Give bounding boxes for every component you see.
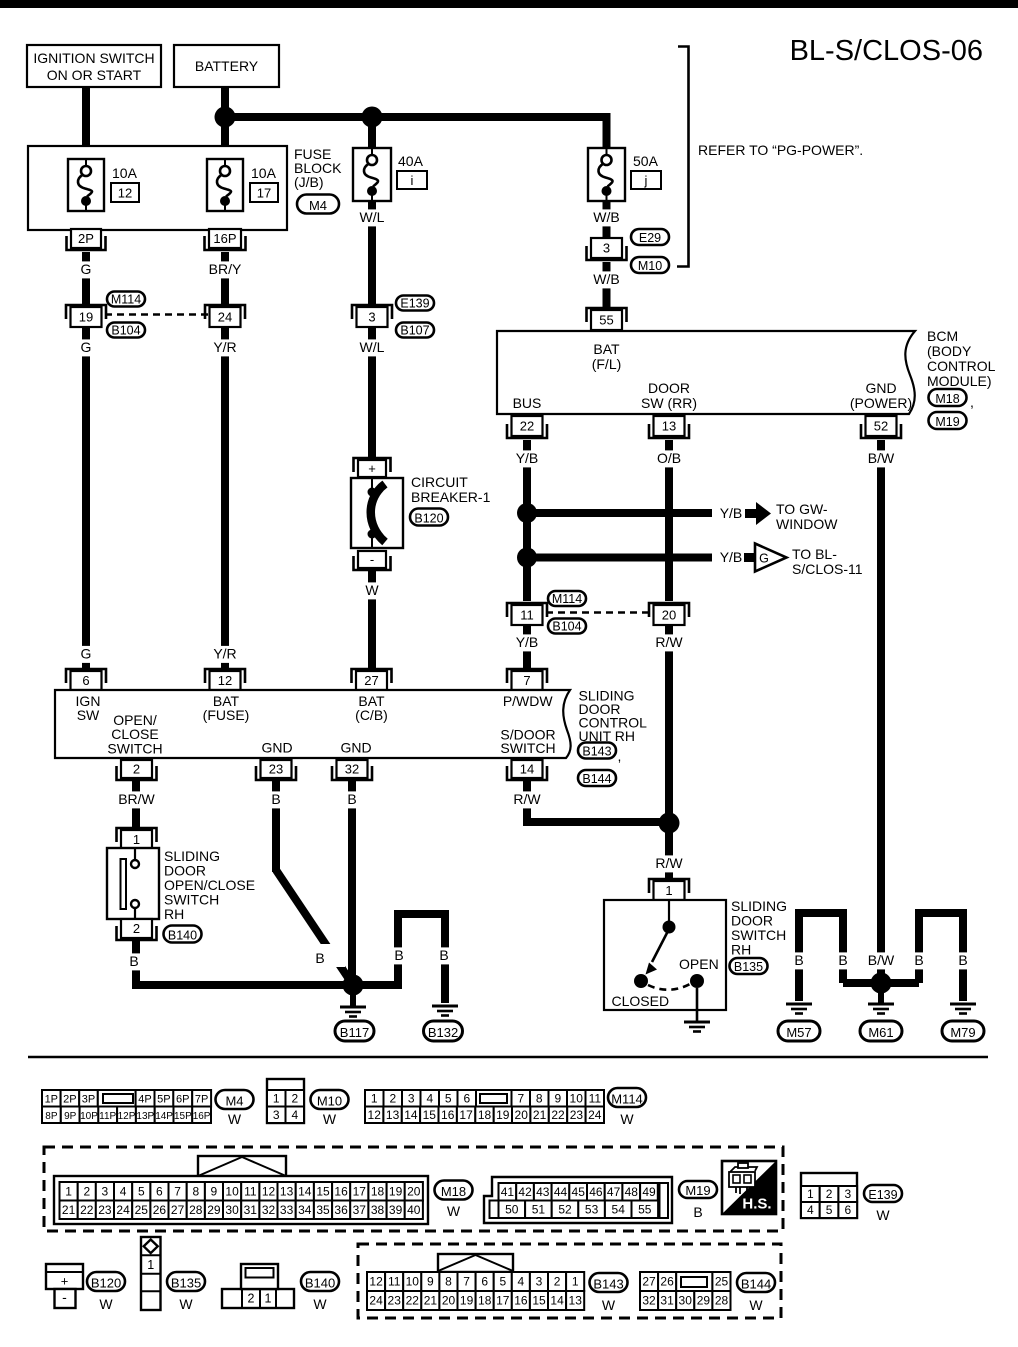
svg-text:B144: B144 bbox=[582, 772, 611, 786]
connector B120 oval bbox=[410, 509, 448, 526]
BCM pin name BUS bbox=[513, 395, 542, 411]
svg-text:2: 2 bbox=[389, 1091, 396, 1105]
svg-text:W: W bbox=[228, 1111, 242, 1127]
svg-text:5P: 5P bbox=[157, 1093, 170, 1105]
svg-text:SWITCH: SWITCH bbox=[500, 740, 555, 756]
svg-text:27: 27 bbox=[171, 1203, 185, 1217]
svg-text:W: W bbox=[447, 1203, 461, 1219]
BCM label bbox=[927, 328, 996, 389]
wire 19 to IGN SW pin 6 bbox=[82, 327, 90, 671]
svg-text:2: 2 bbox=[248, 1292, 255, 1306]
svg-text:BR/Y: BR/Y bbox=[209, 261, 242, 277]
wire label Y/B below 11 bbox=[513, 634, 541, 651]
svg-text:18: 18 bbox=[478, 1108, 492, 1122]
wire label G above 6 bbox=[78, 646, 94, 663]
svg-text:1: 1 bbox=[807, 1187, 814, 1201]
svg-text:6: 6 bbox=[481, 1275, 488, 1289]
svg-text:W: W bbox=[179, 1296, 193, 1312]
svg-text:(BODY: (BODY bbox=[927, 343, 972, 359]
svg-text:26: 26 bbox=[660, 1275, 674, 1289]
wire label BR/Y bbox=[206, 261, 244, 278]
svg-text:,: , bbox=[618, 748, 622, 764]
control unit pin name P/WDW bbox=[503, 693, 554, 709]
circuit breaker minus connector bbox=[354, 551, 391, 570]
svg-text:B117: B117 bbox=[340, 1025, 369, 1040]
svg-text:9P: 9P bbox=[64, 1111, 77, 1122]
svg-text:46: 46 bbox=[589, 1185, 603, 1199]
ground M79 bbox=[950, 1004, 976, 1014]
wire 16P to 24 bbox=[221, 252, 229, 305]
control unit pin name GND 32 bbox=[340, 740, 371, 756]
svg-text:24: 24 bbox=[116, 1203, 130, 1217]
wire label R/W above 1 bbox=[653, 855, 685, 872]
svg-text:IGNITION SWITCH: IGNITION SWITCH bbox=[33, 50, 154, 66]
door switch OPEN contact bbox=[679, 956, 719, 988]
connector E139 face oval bbox=[864, 1185, 902, 1223]
fuse 10A 12 bbox=[68, 159, 104, 211]
svg-text:B: B bbox=[914, 952, 923, 968]
ground door switch bbox=[684, 1022, 710, 1032]
svg-text:19: 19 bbox=[460, 1294, 474, 1308]
svg-text:50: 50 bbox=[505, 1202, 519, 1216]
svg-text:2: 2 bbox=[133, 921, 140, 936]
svg-text:10A: 10A bbox=[251, 165, 277, 181]
svg-text:M18: M18 bbox=[935, 392, 959, 406]
branch wire to GW-WINDOW bbox=[527, 509, 712, 517]
svg-text:5: 5 bbox=[826, 1203, 833, 1217]
sliding door open/close switch body bbox=[107, 848, 159, 919]
svg-text:12: 12 bbox=[369, 1275, 383, 1289]
wire 23 down bbox=[272, 781, 280, 872]
svg-text:53: 53 bbox=[585, 1202, 599, 1216]
svg-text:32: 32 bbox=[262, 1203, 276, 1217]
svg-text:ON OR START: ON OR START bbox=[47, 67, 142, 83]
splice dashed link 11-20 bbox=[546, 611, 651, 614]
svg-text:23: 23 bbox=[570, 1108, 584, 1122]
svg-text:M10: M10 bbox=[317, 1093, 342, 1108]
svg-text:9: 9 bbox=[427, 1275, 434, 1289]
svg-text:54: 54 bbox=[612, 1202, 626, 1216]
junction R/W bbox=[659, 813, 680, 834]
svg-text:40A: 40A bbox=[398, 153, 424, 169]
wire GND 52 down bbox=[877, 440, 885, 983]
svg-text:7: 7 bbox=[463, 1275, 470, 1289]
connector B143 oval right bbox=[578, 743, 621, 765]
door switch contact arm bbox=[646, 900, 676, 975]
H.S. hand symbol bbox=[722, 1161, 776, 1214]
svg-text:7P: 7P bbox=[195, 1093, 208, 1105]
connector 14 bbox=[507, 760, 547, 780]
svg-text:B: B bbox=[439, 947, 448, 963]
svg-text:13: 13 bbox=[386, 1108, 400, 1122]
svg-text:11: 11 bbox=[520, 608, 534, 623]
svg-text:CIRCUIT: CIRCUIT bbox=[411, 474, 468, 490]
svg-text:12: 12 bbox=[262, 1184, 276, 1198]
wire label W/L upper bbox=[357, 209, 387, 226]
ground wires M57 bbox=[799, 913, 843, 1001]
svg-text:22: 22 bbox=[520, 419, 534, 434]
svg-text:W/B: W/B bbox=[593, 209, 619, 225]
svg-text:17: 17 bbox=[257, 186, 271, 201]
svg-text:2P: 2P bbox=[63, 1093, 76, 1105]
svg-text:32: 32 bbox=[642, 1294, 656, 1308]
svg-text:TO BL-: TO BL- bbox=[792, 546, 837, 562]
svg-text:(J/B): (J/B) bbox=[294, 174, 324, 190]
connector B135 oval bbox=[730, 958, 768, 974]
connector face M19 bbox=[484, 1177, 672, 1223]
connector M4 face oval bbox=[216, 1090, 254, 1127]
svg-text:H.S.: H.S. bbox=[742, 1196, 771, 1213]
ground M57 bbox=[786, 1004, 812, 1014]
svg-text:36: 36 bbox=[334, 1203, 348, 1217]
label TO GW-WINDOW bbox=[776, 501, 838, 532]
svg-text:BCM: BCM bbox=[927, 328, 958, 344]
svg-text:52: 52 bbox=[874, 419, 888, 434]
svg-text:W/B: W/B bbox=[593, 271, 619, 287]
wire label BR/W bbox=[116, 791, 158, 808]
svg-text:18: 18 bbox=[371, 1184, 385, 1198]
svg-text:BREAKER-1: BREAKER-1 bbox=[411, 489, 491, 505]
svg-text:29: 29 bbox=[207, 1203, 221, 1217]
fuse 50A j bbox=[588, 148, 625, 201]
svg-text:24: 24 bbox=[369, 1294, 383, 1308]
control unit pin name IGN SW bbox=[76, 693, 101, 723]
svg-text:Y/B: Y/B bbox=[516, 634, 539, 650]
connector face B143 bbox=[367, 1272, 584, 1310]
svg-text:,: , bbox=[970, 394, 974, 410]
refer-to text bbox=[698, 142, 863, 158]
svg-text:B140: B140 bbox=[305, 1275, 335, 1290]
wire label B left of bridge bbox=[392, 947, 406, 964]
svg-text:30: 30 bbox=[225, 1203, 239, 1217]
svg-text:Y/B: Y/B bbox=[516, 450, 539, 466]
connector 55 bbox=[587, 308, 627, 330]
svg-text:20: 20 bbox=[442, 1294, 456, 1308]
svg-text:17: 17 bbox=[496, 1294, 510, 1308]
svg-text:E139: E139 bbox=[868, 1188, 897, 1202]
svg-text:B143: B143 bbox=[593, 1276, 623, 1291]
svg-text:11P: 11P bbox=[99, 1111, 116, 1122]
wire 11 to P/WDW pin 7 bbox=[523, 625, 531, 671]
svg-text:55: 55 bbox=[638, 1202, 652, 1216]
connector B144 face oval bbox=[737, 1273, 775, 1313]
wire label B below 32 bbox=[345, 791, 359, 808]
door switch CLOSED contact bbox=[612, 974, 670, 1009]
wire ignition to fuse block bbox=[82, 87, 90, 147]
svg-text:5: 5 bbox=[138, 1184, 145, 1198]
svg-text:G: G bbox=[81, 646, 92, 662]
svg-text:W: W bbox=[313, 1296, 327, 1312]
arrow to GW-WINDOW bbox=[745, 502, 771, 525]
svg-text:SW (RR): SW (RR) bbox=[641, 395, 697, 411]
svg-text:B: B bbox=[794, 952, 803, 968]
connector 3 E139 bbox=[352, 305, 392, 327]
svg-text:GND: GND bbox=[340, 740, 371, 756]
svg-text:W: W bbox=[620, 1111, 634, 1127]
svg-text:25: 25 bbox=[715, 1275, 729, 1289]
wire label W/B lower bbox=[591, 271, 622, 288]
svg-text:4P: 4P bbox=[138, 1093, 151, 1105]
control unit pin name S/DOOR SWITCH bbox=[500, 727, 555, 757]
svg-text:1: 1 bbox=[133, 832, 140, 847]
svg-text:1: 1 bbox=[147, 1258, 154, 1272]
wire label B below 23 bbox=[269, 791, 283, 808]
fuse block label bbox=[294, 146, 342, 190]
wire label G below 19 bbox=[78, 339, 94, 356]
svg-text:3: 3 bbox=[603, 241, 610, 256]
svg-text:3: 3 bbox=[368, 310, 375, 325]
svg-text:W: W bbox=[365, 582, 379, 598]
svg-text:W/L: W/L bbox=[360, 209, 385, 225]
svg-text:15: 15 bbox=[532, 1294, 546, 1308]
svg-text:12: 12 bbox=[368, 1108, 382, 1122]
fuse 17 labels bbox=[250, 165, 278, 202]
svg-text:34: 34 bbox=[298, 1203, 312, 1217]
svg-text:-: - bbox=[370, 552, 374, 567]
connector face B143 cap bbox=[438, 1254, 513, 1272]
connector M10 oval mid bbox=[631, 257, 669, 273]
svg-text:3: 3 bbox=[408, 1091, 415, 1105]
svg-text:15: 15 bbox=[316, 1184, 330, 1198]
wire BUS 22 down bbox=[523, 440, 531, 601]
svg-text:3: 3 bbox=[844, 1187, 851, 1201]
junction 40A branch bbox=[362, 107, 383, 149]
connector 1 door switch bbox=[649, 879, 689, 900]
wire 2P to 19 bbox=[82, 252, 90, 305]
svg-text:WINDOW: WINDOW bbox=[776, 516, 838, 532]
svg-text:E29: E29 bbox=[639, 231, 661, 245]
svg-text:13P: 13P bbox=[136, 1111, 154, 1122]
svg-text:9: 9 bbox=[211, 1184, 218, 1198]
control unit label bbox=[579, 688, 648, 745]
svg-text:B: B bbox=[315, 950, 324, 966]
svg-text:18: 18 bbox=[478, 1294, 492, 1308]
connector M57 oval bbox=[778, 1021, 820, 1041]
svg-text:2: 2 bbox=[291, 1091, 298, 1105]
svg-text:10: 10 bbox=[406, 1275, 420, 1289]
svg-text:29: 29 bbox=[697, 1294, 711, 1308]
svg-text:12: 12 bbox=[118, 186, 132, 201]
svg-text:32: 32 bbox=[345, 762, 359, 777]
control unit pin name BAT FUSE bbox=[203, 693, 250, 723]
wire label W/L lower bbox=[357, 339, 387, 356]
svg-text:1P: 1P bbox=[45, 1093, 58, 1105]
svg-text:6: 6 bbox=[156, 1184, 163, 1198]
svg-text:26: 26 bbox=[153, 1203, 167, 1217]
connector 11 bbox=[507, 603, 547, 625]
connector M4 oval bbox=[297, 195, 339, 214]
wire label B below B140 bbox=[127, 953, 141, 970]
connector 27 bbox=[352, 669, 392, 690]
svg-text:4: 4 bbox=[807, 1203, 814, 1217]
svg-text:21: 21 bbox=[533, 1108, 547, 1122]
svg-text:B: B bbox=[958, 952, 967, 968]
ground wires M79 bbox=[919, 913, 963, 1001]
svg-text:Y/B: Y/B bbox=[720, 549, 743, 565]
connector face M114 bbox=[365, 1090, 604, 1123]
svg-text:G: G bbox=[759, 552, 769, 566]
svg-text:20: 20 bbox=[662, 608, 676, 623]
svg-text:38: 38 bbox=[371, 1203, 385, 1217]
wire 20 down to junction bbox=[665, 625, 673, 881]
svg-text:9: 9 bbox=[554, 1091, 561, 1105]
svg-text:GND: GND bbox=[865, 380, 896, 396]
BCM pin name DOOR SW RR bbox=[641, 380, 697, 411]
svg-text:MODULE): MODULE) bbox=[927, 373, 992, 389]
svg-text:(C/B): (C/B) bbox=[355, 707, 388, 723]
svg-text:15P: 15P bbox=[174, 1111, 192, 1122]
svg-text:BL-S/CLOS-06: BL-S/CLOS-06 bbox=[790, 35, 983, 67]
wire label B left join bbox=[836, 952, 850, 969]
svg-text:14P: 14P bbox=[155, 1111, 173, 1122]
branch wire to BL-S/CLOS-11 bbox=[527, 554, 712, 562]
connector B120 face oval bbox=[87, 1272, 125, 1312]
svg-text:6: 6 bbox=[463, 1091, 470, 1105]
svg-text:17: 17 bbox=[459, 1108, 473, 1122]
svg-text:M114: M114 bbox=[611, 1091, 643, 1106]
ground bus join bbox=[843, 979, 919, 987]
svg-text:22: 22 bbox=[406, 1294, 420, 1308]
svg-text:10A: 10A bbox=[112, 165, 138, 181]
svg-text:23: 23 bbox=[269, 762, 283, 777]
svg-text:41: 41 bbox=[501, 1185, 515, 1199]
connector face B140 bbox=[222, 1264, 294, 1308]
wire label R/W below 14 bbox=[511, 791, 543, 808]
wire 32 down to junction bbox=[348, 781, 356, 985]
svg-text:24: 24 bbox=[218, 310, 232, 325]
svg-text:14: 14 bbox=[404, 1108, 418, 1122]
svg-text:35: 35 bbox=[316, 1203, 330, 1217]
svg-text:3: 3 bbox=[273, 1108, 280, 1122]
svg-text:3: 3 bbox=[102, 1184, 109, 1198]
svg-text:49: 49 bbox=[642, 1185, 656, 1199]
svg-text:10: 10 bbox=[225, 1184, 239, 1198]
svg-text:23: 23 bbox=[388, 1294, 402, 1308]
svg-text:12: 12 bbox=[218, 673, 232, 688]
control unit pin name GND 23 bbox=[261, 740, 292, 756]
wire label B right of bridge bbox=[437, 947, 451, 964]
svg-text:22: 22 bbox=[551, 1108, 565, 1122]
svg-text:8: 8 bbox=[536, 1091, 543, 1105]
svg-text:4: 4 bbox=[426, 1091, 433, 1105]
wire battery to bus bbox=[221, 87, 229, 147]
svg-text:CONTROL: CONTROL bbox=[927, 358, 996, 374]
connector B132 oval bbox=[424, 1021, 463, 1041]
wire 14 to door switch junction bbox=[527, 781, 669, 822]
svg-text:16: 16 bbox=[441, 1108, 455, 1122]
svg-text:11: 11 bbox=[244, 1184, 257, 1198]
svg-text:M79: M79 bbox=[950, 1025, 975, 1040]
svg-text:13: 13 bbox=[569, 1294, 583, 1308]
connector 19 bbox=[66, 305, 106, 327]
svg-text:B120: B120 bbox=[414, 511, 443, 525]
svg-text:M61: M61 bbox=[868, 1025, 893, 1040]
battery box bbox=[174, 45, 279, 87]
svg-text:2: 2 bbox=[133, 762, 140, 777]
connector face B144 bbox=[640, 1272, 731, 1310]
wire B140 to ground junction bbox=[136, 941, 353, 985]
ground B132 bbox=[432, 1006, 458, 1016]
svg-text:50A: 50A bbox=[633, 153, 659, 169]
title BL-S/CLOS-06 bbox=[790, 35, 983, 67]
connector 22 bbox=[507, 416, 547, 438]
svg-text:19: 19 bbox=[389, 1184, 403, 1198]
ignition switch box bbox=[27, 45, 161, 87]
svg-text:8P: 8P bbox=[45, 1111, 58, 1122]
svg-text:1: 1 bbox=[265, 1292, 272, 1306]
svg-text:40: 40 bbox=[407, 1203, 421, 1217]
svg-text:(F/L): (F/L) bbox=[592, 356, 622, 372]
connector E139 oval upper bbox=[396, 296, 434, 311]
svg-text:27: 27 bbox=[642, 1275, 656, 1289]
connector 7 bbox=[507, 669, 547, 690]
junction Y/B 1 bbox=[517, 503, 537, 523]
wire label B M57 bbox=[792, 952, 806, 969]
svg-text:P/WDW: P/WDW bbox=[503, 693, 554, 709]
svg-text:Y/R: Y/R bbox=[213, 646, 236, 662]
power bus wire bbox=[225, 117, 607, 148]
svg-text:48: 48 bbox=[625, 1185, 639, 1199]
connector face E139 bbox=[801, 1173, 857, 1218]
svg-text:8: 8 bbox=[445, 1275, 452, 1289]
svg-text:4: 4 bbox=[120, 1184, 127, 1198]
connector M10 face oval bbox=[311, 1090, 349, 1127]
connector B143 face oval bbox=[590, 1273, 628, 1313]
svg-text:M4: M4 bbox=[309, 198, 327, 213]
svg-text:S/CLOS-11: S/CLOS-11 bbox=[792, 561, 863, 577]
svg-text:2: 2 bbox=[554, 1275, 561, 1289]
svg-text:2: 2 bbox=[826, 1187, 833, 1201]
svg-text:B140: B140 bbox=[168, 928, 197, 942]
svg-text:6: 6 bbox=[844, 1203, 851, 1217]
svg-text:j: j bbox=[644, 173, 648, 188]
svg-text:20: 20 bbox=[515, 1108, 529, 1122]
connector B144 oval right bbox=[578, 770, 616, 786]
control unit pin name BAT C/B bbox=[355, 693, 388, 723]
svg-text:39: 39 bbox=[389, 1203, 403, 1217]
svg-text:REFER TO “PG-POWER”.: REFER TO “PG-POWER”. bbox=[698, 142, 863, 158]
wire 24 to BAT FUSE pin 12 bbox=[221, 327, 229, 671]
svg-text:B: B bbox=[347, 791, 356, 807]
connector 2 bbox=[117, 760, 157, 780]
svg-text:8: 8 bbox=[192, 1184, 199, 1198]
ground M61 bbox=[868, 988, 894, 1014]
svg-text:42: 42 bbox=[518, 1185, 532, 1199]
svg-text:5: 5 bbox=[445, 1091, 452, 1105]
control unit pin name OPEN/CLOSE SWITCH bbox=[107, 712, 162, 757]
svg-text:B120: B120 bbox=[91, 1275, 121, 1290]
svg-text:G: G bbox=[81, 261, 92, 277]
svg-text:37: 37 bbox=[353, 1203, 367, 1217]
svg-text:W: W bbox=[602, 1297, 616, 1313]
svg-text:23: 23 bbox=[98, 1203, 112, 1217]
svg-text:(FUSE): (FUSE) bbox=[203, 707, 250, 723]
connector B104 oval upper bbox=[107, 323, 145, 338]
svg-text:31: 31 bbox=[244, 1203, 258, 1217]
svg-text:52: 52 bbox=[558, 1202, 572, 1216]
svg-text:55: 55 bbox=[599, 313, 613, 328]
separator line bbox=[28, 1056, 988, 1059]
svg-text:2: 2 bbox=[83, 1184, 90, 1198]
svg-text:33: 33 bbox=[280, 1203, 294, 1217]
circuit breaker CB-1 body bbox=[351, 478, 403, 548]
wire DOOR SW 13 down bbox=[665, 440, 673, 601]
svg-text:SWITCH: SWITCH bbox=[107, 741, 162, 757]
svg-text:5: 5 bbox=[499, 1275, 506, 1289]
svg-text:B135: B135 bbox=[734, 960, 763, 974]
connector B135 face oval bbox=[167, 1272, 205, 1312]
junction ground B117 bbox=[343, 975, 364, 1007]
